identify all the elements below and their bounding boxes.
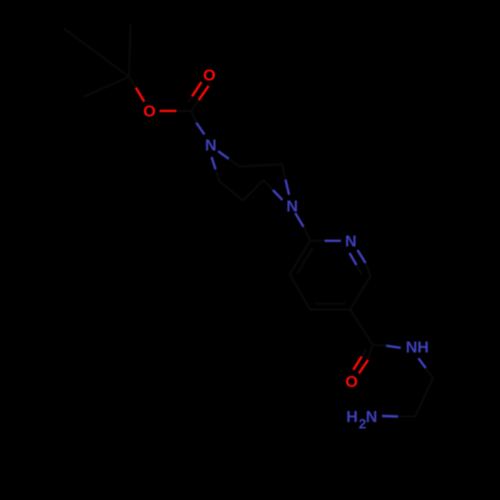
svg-text:N: N	[286, 199, 298, 216]
svg-text:N: N	[345, 233, 357, 250]
svg-text:O: O	[345, 374, 357, 391]
svg-text:NH: NH	[406, 340, 429, 357]
svg-text:H: H	[346, 409, 358, 426]
svg-text:O: O	[143, 103, 155, 120]
svg-text:O: O	[203, 67, 215, 84]
svg-text:N: N	[205, 137, 217, 154]
svg-text:N: N	[366, 409, 378, 426]
